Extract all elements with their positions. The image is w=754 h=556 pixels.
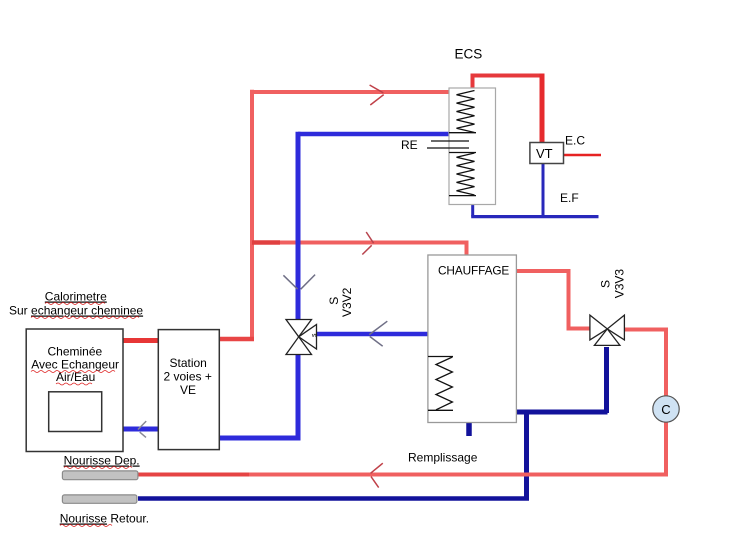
Station box [158, 330, 219, 450]
svg-text:Nourisse Dep.: Nourisse Dep. [64, 454, 140, 468]
wire red nourisse dep horizontal [248, 473, 668, 477]
arrow right on red top [370, 85, 384, 93]
wire red supply top horizontal to ECS tank [250, 90, 449, 94]
svg-text:CHAUFFAGE: CHAUFFAGE [438, 264, 509, 278]
svg-text:Remplissage: Remplissage [408, 451, 478, 465]
arrow left at station inlet [138, 421, 146, 429]
svg-text:C: C [661, 402, 670, 417]
svg-text:VT: VT [536, 146, 553, 161]
wire red vertical into CHAUFFAGE top [465, 243, 469, 257]
svg-text:S: S [327, 297, 341, 305]
wire blue station left to cheminee [123, 427, 159, 432]
wire blue vertical to valve V3V2 top [296, 132, 301, 319]
node crossing: blue over red at (298,243) [296, 236, 301, 250]
ECS tank box [449, 88, 496, 205]
svg-text:RE: RE [401, 138, 418, 152]
Cheminee box [26, 329, 123, 452]
arrow left on blue valve-chauffage [369, 321, 387, 334]
CHAUFFAGE box [428, 255, 517, 423]
wire navy valve V3V3 bottom vertical [604, 347, 609, 413]
grey bar nourisse retour [62, 495, 136, 503]
wire navy vertical down to retour [524, 412, 529, 499]
svg-text:2 voies +: 2 voies + [164, 370, 212, 384]
svg-text:S: S [598, 280, 612, 288]
wire navy chauffage right bottom horizontal [516, 410, 608, 415]
squiggle Air/Eau [56, 383, 92, 385]
chauffage coil [428, 356, 453, 358]
ECS upper coil [457, 91, 475, 133]
wire blue valve V3V2 bottom vertical [296, 355, 301, 441]
wire blue tank inlet horizontal [298, 132, 449, 137]
wire navy nourisse retour horizontal [138, 496, 529, 501]
svg-text:E.C: E.C [565, 134, 585, 148]
wire red station right stub [219, 337, 254, 342]
svg-text:ECS: ECS [455, 47, 483, 62]
VT box [530, 143, 564, 164]
svg-text:V3V3: V3V3 [613, 269, 627, 299]
squiggle Avec Echangeur [31, 371, 115, 373]
grey bar nourisse dep [62, 471, 137, 480]
svg-text:Sur echangeur cheminee: Sur echangeur cheminee [9, 304, 143, 318]
wire blue horizontal to station right [219, 436, 301, 441]
svg-text:Cheminée: Cheminée [48, 345, 103, 359]
svg-text:VE: VE [180, 383, 196, 397]
svg-text:V3V2: V3V2 [340, 287, 354, 317]
wire red mid horizontal to chauffage [252, 241, 469, 245]
arrow right on red mid [366, 232, 373, 243]
svg-text:Nourisse Retour.: Nourisse Retour. [60, 512, 149, 526]
svg-text:Calorimetre: Calorimetre [45, 290, 107, 304]
wire red vertical down to VT box [540, 74, 545, 145]
valve V3V2 [286, 320, 317, 355]
arrow down on blue vertical [283, 275, 297, 289]
wire red mid horizontal darker left end [252, 240, 280, 245]
svg-text:E.F: E.F [560, 191, 579, 205]
wire red valve V3V3 right to corner and down through C [624, 330, 666, 475]
RE electric resistance plates [431, 140, 469, 142]
circle C pump/counter [653, 396, 679, 422]
wire blue tank bottom vertical [471, 204, 474, 217]
wire red supply left vertical [250, 90, 254, 341]
arrow left on nourisse dep [371, 463, 383, 473]
wire blue valve V3V2 right to chauffage [317, 332, 429, 337]
svg-text:s: s [311, 333, 318, 337]
wire blue VT down vertical [542, 163, 545, 217]
wire red thin VT to E.C [564, 154, 602, 157]
wire navy remplissage stub under chauffage [466, 423, 472, 437]
wire red tank top to VT [473, 76, 543, 89]
wire red chauffage right out [516, 271, 590, 329]
svg-text:Station: Station [170, 356, 207, 370]
ECS lower coil [449, 152, 476, 154]
wire red cheminee to station [123, 338, 159, 343]
valve V3V3 [590, 315, 625, 345]
wire blue E.F horizontal [471, 215, 598, 218]
